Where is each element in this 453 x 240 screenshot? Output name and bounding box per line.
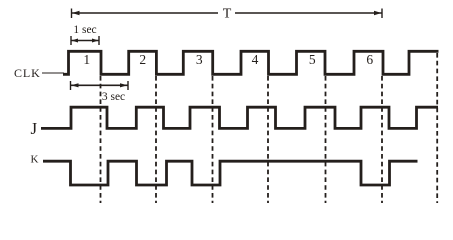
svg-text:3: 3 <box>196 52 203 67</box>
svg-text:1 sec: 1 sec <box>73 24 96 36</box>
svg-text:5: 5 <box>309 52 316 67</box>
svg-text:K: K <box>31 154 39 166</box>
svg-text:J: J <box>31 119 38 138</box>
svg-text:6: 6 <box>366 52 373 67</box>
svg-text:CLK: CLK <box>14 66 41 80</box>
svg-text:4: 4 <box>252 52 259 67</box>
svg-text:1: 1 <box>83 52 90 67</box>
svg-text:T: T <box>223 7 232 22</box>
svg-text:2: 2 <box>139 52 146 67</box>
svg-text:3 sec: 3 sec <box>102 91 125 103</box>
